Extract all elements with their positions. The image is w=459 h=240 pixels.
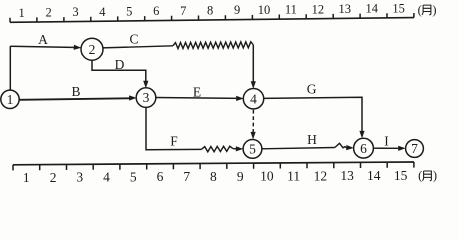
svg-text:2: 2 <box>45 5 51 19</box>
svg-text:1: 1 <box>7 92 14 107</box>
svg-text:10: 10 <box>260 169 274 184</box>
svg-text:G: G <box>307 82 317 97</box>
svg-text:6: 6 <box>157 169 164 184</box>
svg-text:7: 7 <box>180 4 186 18</box>
svg-text:1: 1 <box>23 170 30 185</box>
svg-text:11: 11 <box>285 3 297 17</box>
svg-text:8: 8 <box>210 169 217 184</box>
svg-text:): ) <box>432 3 436 17</box>
svg-text:3: 3 <box>72 5 78 19</box>
svg-text:7: 7 <box>183 169 190 184</box>
svg-text:4: 4 <box>103 170 110 185</box>
svg-text:(: ( <box>418 3 422 17</box>
svg-text:B: B <box>71 84 80 99</box>
svg-text:D: D <box>115 57 125 72</box>
svg-text:3: 3 <box>76 170 83 185</box>
svg-text:E: E <box>193 85 201 100</box>
svg-text:4: 4 <box>99 5 106 19</box>
svg-text:5: 5 <box>249 142 256 157</box>
svg-text:10: 10 <box>258 3 271 17</box>
svg-text:1: 1 <box>18 6 24 20</box>
svg-text:5: 5 <box>126 5 132 19</box>
svg-text:15: 15 <box>394 168 408 183</box>
svg-text:(: ( <box>418 169 422 183</box>
svg-text:7: 7 <box>411 141 418 156</box>
svg-text:9: 9 <box>234 3 240 17</box>
svg-text:A: A <box>38 32 48 47</box>
svg-text:2: 2 <box>50 170 57 185</box>
svg-text:2: 2 <box>89 42 96 57</box>
svg-text:3: 3 <box>143 90 150 105</box>
svg-text:8: 8 <box>207 4 213 18</box>
svg-text:12: 12 <box>312 2 325 16</box>
svg-text:): ) <box>433 169 437 183</box>
svg-text:6: 6 <box>360 141 367 156</box>
svg-text:14: 14 <box>365 2 378 16</box>
svg-text:6: 6 <box>153 4 159 18</box>
svg-text:C: C <box>129 32 138 47</box>
svg-text:I: I <box>384 133 389 148</box>
svg-text:12: 12 <box>314 168 328 183</box>
svg-text:H: H <box>307 132 317 147</box>
svg-text:11: 11 <box>287 168 300 183</box>
svg-text:14: 14 <box>367 168 381 183</box>
svg-text:9: 9 <box>237 169 244 184</box>
svg-text:4: 4 <box>250 91 257 106</box>
svg-text:15: 15 <box>392 1 405 15</box>
svg-text:13: 13 <box>339 2 352 16</box>
svg-text:F: F <box>170 133 178 148</box>
svg-text:13: 13 <box>340 168 354 183</box>
svg-text:5: 5 <box>130 169 137 184</box>
